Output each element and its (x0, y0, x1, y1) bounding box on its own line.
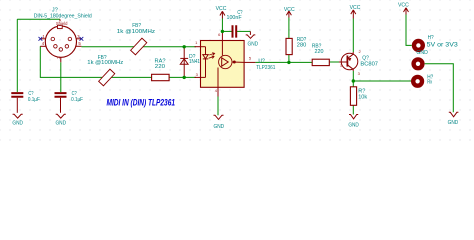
pin 4 stub (40, 45, 46, 47)
svg-text:GND: GND (416, 50, 428, 56)
junction collector (352, 79, 355, 82)
svg-text:MIDI IN (DIN) TLP2361: MIDI IN (DIN) TLP2361 (107, 96, 176, 107)
svg-text:DIN-5_180degree_Shield: DIN-5_180degree_Shield (34, 14, 92, 20)
opto pin 3 (195, 76, 206, 78)
resistor RB 220 (312, 43, 329, 65)
svg-text:GND: GND (12, 120, 23, 126)
pin 2 stub (60, 57, 62, 62)
VCC right side (398, 2, 409, 14)
svg-text:10k: 10k (358, 95, 367, 101)
junction RD output (287, 61, 290, 64)
ground under R 10k (348, 115, 359, 129)
connector J1 notch (58, 25, 63, 28)
opto pin 5 (244, 61, 255, 63)
connector J1 pin cup 4 (54, 45, 58, 49)
ground right bottom (448, 112, 459, 126)
svg-text:GND: GND (56, 120, 67, 126)
wire collector down (352, 71, 354, 87)
opto detector (218, 41, 244, 88)
opto pin 4 (217, 87, 219, 96)
wire DIN pin2 down to C2 (60, 62, 62, 92)
wire donut2 to gnd (425, 64, 454, 113)
resistor RA 220 (152, 59, 170, 81)
svg-text:220: 220 (155, 64, 165, 70)
wire cap C3 to gnd (237, 30, 251, 32)
svg-text:Rx: Rx (427, 80, 432, 86)
wire R10k to gnd (352, 105, 354, 114)
svg-text:FB?: FB? (132, 23, 141, 29)
svg-text:H?: H? (428, 35, 434, 41)
wire shield top (17, 18, 60, 20)
svg-text:1k @100MHz: 1k @100MHz (87, 60, 123, 66)
capacitor C2 plates (55, 93, 67, 113)
svg-text:U?: U? (258, 58, 265, 64)
wire RD top to VCC (288, 18, 290, 39)
opto internal LED (203, 47, 208, 78)
svg-text:VCC: VCC (216, 6, 227, 12)
wire opto pin4 to gnd (217, 97, 219, 116)
opto pin 6 (221, 31, 223, 40)
opto pin 1 (195, 46, 206, 48)
svg-text:Shield: Shield (56, 21, 68, 26)
wire VCC to opto pin6 (221, 19, 223, 32)
svg-text:GND: GND (214, 124, 225, 130)
wire VCC right to donut1 (406, 15, 412, 46)
VCC above RD (284, 7, 295, 18)
resistor RD 280 pull-up (286, 37, 306, 55)
wire opto out to RB (255, 61, 312, 63)
svg-text:1k @100MHz: 1k @100MHz (117, 29, 156, 35)
capacitor C1 plates (11, 93, 23, 113)
VCC above Q1 (350, 5, 361, 19)
junction at opto vcc (221, 30, 224, 33)
svg-text:GND: GND (348, 122, 359, 128)
svg-text:VCC: VCC (284, 7, 295, 13)
ferrite bead FB1 (upper) (117, 23, 156, 55)
wire collector to donut3 (353, 80, 411, 82)
svg-text:5V or 3V3: 5V or 3V3 (427, 42, 459, 49)
no-connect X pin3 (80, 37, 84, 41)
connector J1 DIN-5 circle (45, 26, 76, 57)
no-connect X pin1 (39, 37, 43, 41)
ground under C2 (56, 114, 67, 126)
wire lower to opto pin3 (169, 76, 196, 78)
svg-text:VCC: VCC (398, 2, 409, 8)
svg-text:GND: GND (448, 120, 459, 126)
svg-text:VCC: VCC (350, 5, 361, 11)
wire RD bottom (288, 55, 290, 63)
pad H3 Rx (413, 75, 433, 86)
capacitor C3 100nF plates (227, 10, 243, 38)
svg-text:220: 220 (315, 49, 324, 55)
VCC power symbol above opto (216, 6, 227, 18)
ground under C1 (12, 114, 23, 126)
pad H1 5V (414, 35, 458, 50)
svg-text:280: 280 (297, 43, 307, 49)
junction top diode (183, 45, 186, 48)
diode D1 1N4148 (180, 47, 205, 78)
svg-text:TLP2361: TLP2361 (256, 65, 275, 71)
svg-text:GND: GND (248, 41, 259, 47)
ferrite bead FB2 (lower) (87, 55, 123, 86)
svg-text:BC807: BC807 (360, 61, 378, 67)
connector J1 pin cup 5 (65, 45, 69, 49)
wire DIN pin5 to opto pin1 (81, 46, 196, 48)
optocoupler U1 TLP2361 body (201, 41, 245, 88)
connector J1 pin cup 2 (59, 48, 63, 52)
pin 1 stub (40, 38, 45, 40)
wire junction to cap C3 (222, 30, 232, 32)
junction bottom diode (183, 76, 186, 79)
wire RB to base (329, 61, 339, 63)
svg-text:0.1µF: 0.1µF (28, 97, 40, 103)
opto light arrows (209, 53, 215, 59)
pin shield stub (59, 19, 61, 26)
wire DIN pin4 left vertical (40, 46, 151, 77)
pin 5 stub (76, 45, 82, 47)
svg-text:100nF: 100nF (227, 15, 243, 21)
resistor R 10k (350, 87, 367, 106)
svg-text:J?: J? (52, 7, 59, 13)
pin 3 stub (76, 38, 81, 40)
transistor Q1 BC807 (339, 49, 378, 76)
ground under opto pin4 (214, 115, 225, 130)
connector J1 pin cup 3 (68, 37, 72, 41)
ground right of C3 (246, 31, 258, 47)
wire VCC to emitter (352, 19, 354, 53)
pad H2 GND (414, 50, 429, 68)
connector J1 pin cup 1 (51, 37, 55, 41)
wire shield vertical to C1 (16, 19, 18, 92)
svg-text:0.1µF: 0.1µF (71, 97, 83, 103)
